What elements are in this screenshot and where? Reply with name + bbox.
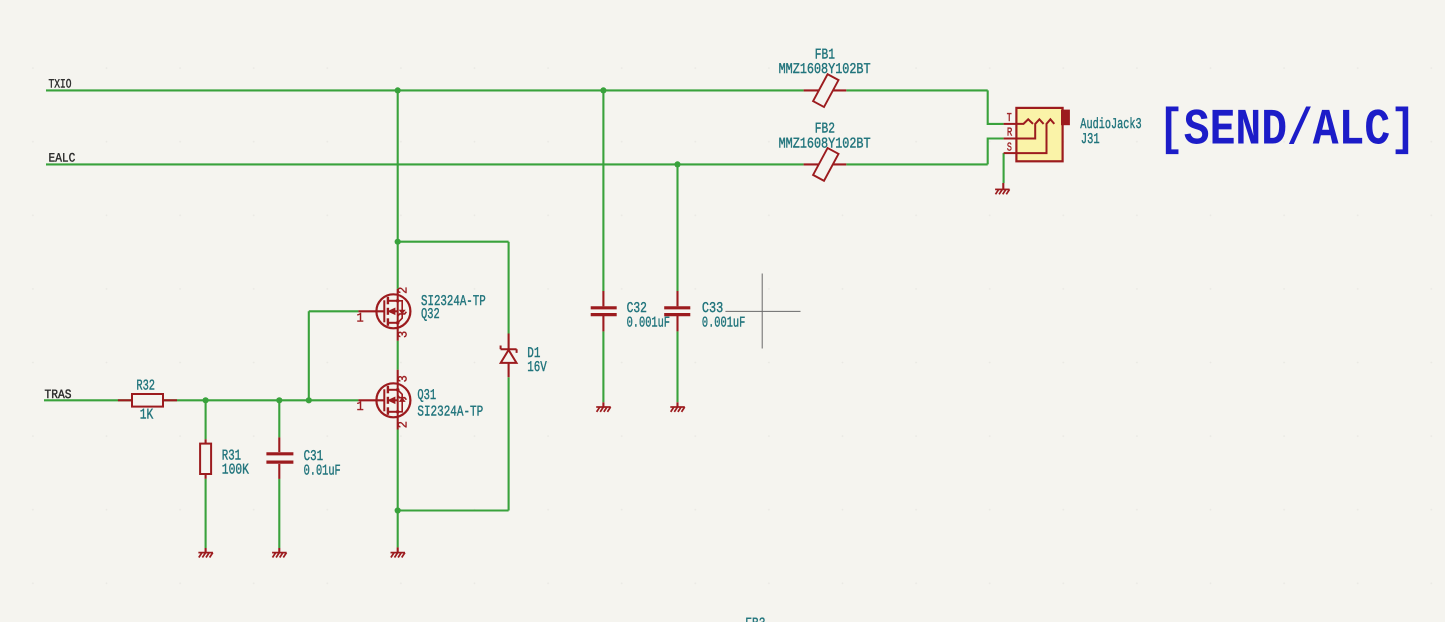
wire C31 to ground [278,479,280,548]
wire gate branch vertical up to Q32 [308,311,310,400]
wire TRAS horizontal [44,399,358,401]
wire Q31 node to ground [397,511,399,548]
ground below C33 [670,402,685,412]
svg-text:T: T [1007,111,1012,125]
junction node TRAS / gate branch [306,397,312,403]
ground below R31 [198,548,213,558]
svg-text:TXIO: TXIO [49,77,72,92]
svg-text:TRAS: TRAS [45,387,72,402]
svg-text:1: 1 [357,311,364,326]
wire jack S pin to ground [1003,153,1005,183]
resistor R32 [118,394,177,407]
connector J31 AudioJack3 [1004,108,1070,161]
wire C32 to ground [602,331,604,402]
junction node TXIO / C32 branch [600,87,606,93]
ferrite bead FB2 [804,148,847,181]
svg-text:0.001uF: 0.001uF [702,316,745,332]
svg-text:MMZ1608Y102BT: MMZ1608Y102BT [779,137,871,153]
pin 2 label Q31 [396,421,411,428]
wire C33 to ground [676,331,678,402]
svg-text:2: 2 [396,421,411,428]
svg-text:[SEND/ALC]: [SEND/ALC] [1158,102,1416,159]
svg-text:1K: 1K [140,408,154,424]
svg-text:Q31: Q31 [417,388,436,404]
ground below J31 sleeve [995,183,1010,194]
junction node TRAS / R31 [203,397,209,403]
junction node EALC / C33 branch [674,161,680,167]
wire R31 to ground [205,479,207,548]
svg-text:SI2324A-TP: SI2324A-TP [417,405,483,421]
ground below Q31 node [391,547,406,557]
wire TXIO horizontal right segment after FB1 [846,89,987,91]
wire C31 branch down [278,400,280,437]
wire TXIO horizontal left segment [46,89,804,91]
svg-text:R32: R32 [136,378,155,394]
transistor Q31 [358,370,410,430]
wire C32 branch from TXIO [602,90,604,291]
svg-text:FB2: FB2 [815,122,835,138]
svg-text:3: 3 [396,331,411,338]
junction node TXIO / Q32 drain branch [395,87,401,93]
svg-text:FB3: FB3 [745,617,765,622]
cursor crosshair [725,274,800,349]
resistor R31 [200,439,211,479]
pin T of J31 [1004,123,1017,125]
wire vertical TXIO to Q32 drain [397,90,399,289]
svg-text:AudioJack3: AudioJack3 [1080,117,1141,133]
svg-text:2: 2 [396,287,411,294]
svg-text:Q32: Q32 [421,307,440,323]
svg-text:0.001uF: 0.001uF [627,316,670,332]
wire branch to D1 top [398,241,509,243]
ground below C32 [596,402,611,412]
svg-text:R: R [1007,125,1012,139]
ferrite bead FB1 [804,74,847,107]
svg-text:3: 3 [396,375,411,382]
svg-text:EALC: EALC [49,150,76,165]
wire EALC horizontal left segment [46,163,804,165]
junction node TRAS / C31 [276,397,282,403]
svg-text:J31: J31 [1081,132,1100,148]
svg-text:16V: 16V [527,360,547,376]
pin 3 label Q32 [396,331,411,338]
wire EALC bend up to jack R pin [988,139,1004,165]
zener diode D1 [501,334,517,378]
capacitor C31 [266,437,293,479]
wire EALC horizontal right segment after FB2 [846,163,987,165]
wire D1 bottom vertical [508,377,510,510]
wire R31 branch down [205,400,207,439]
svg-text:S: S [1007,141,1012,155]
junction node Q31 source / D1 bottom / ground [395,507,401,513]
transistor Q32 [358,289,410,341]
wire Q32 source to Q31 drain [397,341,399,370]
wire bottom horizontal D1 to Q31 [398,509,509,511]
svg-text:1: 1 [357,399,364,414]
svg-text:100K: 100K [222,463,249,479]
svg-text:0.01uF: 0.01uF [304,463,341,479]
wire Q32 gate horizontal [309,310,359,312]
capacitor C32 [591,291,617,331]
pin 2 label Q32 [396,287,411,294]
ground below C31 [272,548,287,558]
wire C33 branch from EALC [676,164,678,291]
pin 3 label Q31 [396,375,411,382]
pin R of J31 [1004,138,1017,140]
capacitor C33 [664,291,690,331]
junction node Q32 drain / D1 branch [395,239,401,245]
wire TXIO bend down to jack T pin [988,90,1004,124]
pin S of J31 [1004,152,1017,154]
svg-text:MMZ1608Y102BT: MMZ1608Y102BT [779,62,871,78]
wire Q31 source down [397,430,399,511]
wire D1 top vertical [508,242,510,334]
